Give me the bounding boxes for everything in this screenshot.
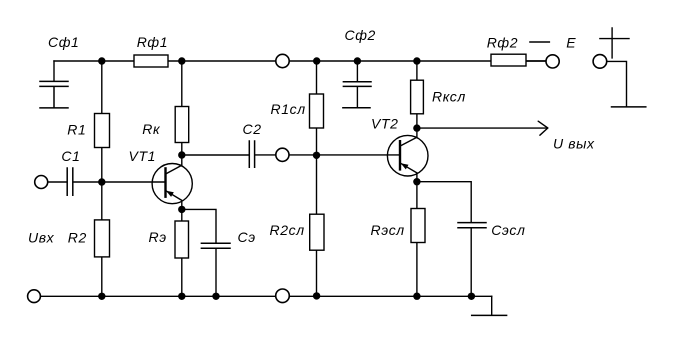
node top rail / R1 bbox=[98, 57, 105, 64]
resistor R2 bbox=[95, 220, 110, 257]
svg-text:Rф2: Rф2 bbox=[487, 34, 518, 50]
svg-text:Rксл: Rксл bbox=[432, 88, 466, 104]
minus sign bbox=[530, 41, 549, 43]
node bottom / R2 bbox=[98, 293, 105, 300]
wire bottom common rail bbox=[41, 295, 492, 297]
resistor R2сл bbox=[310, 214, 324, 250]
capacitor Сф2 bbox=[343, 82, 371, 87]
node top rail / Cf2 bbox=[354, 57, 361, 64]
svg-text:Сф1: Сф1 bbox=[48, 34, 79, 50]
resistor Rэсл bbox=[411, 209, 425, 243]
connector bottom rail bbox=[276, 289, 290, 303]
ground bar bottom right bbox=[472, 314, 507, 316]
capacitor Сэ bbox=[201, 243, 230, 248]
node top rail / Rksl bbox=[413, 57, 420, 64]
wire top supply rail bbox=[54, 60, 546, 62]
svg-text:R2сл: R2сл bbox=[270, 222, 305, 238]
ground bar under Сф2 bbox=[343, 107, 370, 109]
terminal input top bbox=[35, 176, 48, 189]
svg-text:C1: C1 bbox=[61, 148, 80, 164]
resistor Rф1 bbox=[134, 55, 168, 67]
node emitter VT2 bbox=[413, 178, 420, 185]
capacitor Сф1 bbox=[40, 81, 68, 107]
ground bar under Сф1 bbox=[40, 107, 68, 109]
svg-text:Сэ: Сэ bbox=[238, 229, 256, 245]
svg-text:Rэ: Rэ bbox=[149, 229, 167, 245]
wire VT2 emitter down bbox=[416, 173, 418, 296]
wire signal row stage1 to C2 bbox=[182, 154, 249, 156]
wire ground stub bottom right bbox=[491, 296, 493, 315]
wire R1sl column bbox=[316, 61, 318, 296]
wire connector to VT2 base bbox=[289, 154, 400, 156]
wire R1 column bbox=[101, 61, 103, 296]
capacitor C1 bbox=[67, 168, 73, 195]
wire input row to base bbox=[48, 181, 165, 183]
node bottom / Re bbox=[178, 293, 185, 300]
resistor R1 bbox=[95, 114, 110, 148]
svg-text:U вых: U вых bbox=[553, 135, 595, 151]
wire C2 to connector bbox=[255, 154, 275, 156]
svg-text:Сф2: Сф2 bbox=[345, 27, 376, 43]
arrowhead Uvyh bbox=[538, 121, 548, 135]
node base VT2 bbox=[313, 152, 320, 159]
svg-text:VT2: VT2 bbox=[371, 115, 398, 131]
node bottom / Ce bbox=[212, 293, 219, 300]
resistor R1сл bbox=[310, 94, 324, 128]
wire VT2 emitter to Cesl bbox=[417, 182, 471, 297]
svg-text:R2: R2 bbox=[68, 230, 87, 246]
terminal plus bbox=[593, 55, 607, 69]
svg-text:E: E bbox=[566, 34, 576, 50]
terminal minus E bbox=[546, 55, 559, 68]
connector top rail bbox=[276, 54, 289, 67]
wire plus terminal to ground bbox=[607, 61, 626, 106]
node bottom / Cesl bbox=[468, 293, 475, 300]
wire VT1 emitter to Ce bbox=[182, 209, 216, 296]
plus sign bbox=[600, 28, 629, 58]
wire output row bbox=[417, 127, 548, 129]
resistor Rэ bbox=[175, 221, 189, 258]
resistor Rф2 bbox=[491, 54, 526, 66]
wire Cf1 top lead bbox=[53, 61, 55, 81]
capacitor C2 bbox=[249, 141, 254, 167]
svg-text:Rэсл: Rэсл bbox=[371, 222, 405, 238]
connector signal row bbox=[276, 148, 289, 161]
transistor VT2 bbox=[387, 135, 428, 176]
node top rail / Rk bbox=[178, 57, 185, 64]
node base VT1 bbox=[98, 178, 105, 185]
svg-text:VT1: VT1 bbox=[129, 148, 156, 164]
node emitter VT1 bbox=[178, 206, 185, 213]
wire VT1 emitter down bbox=[181, 200, 183, 296]
node top rail / R1sl bbox=[313, 57, 320, 64]
svg-text:Uвх: Uвх bbox=[28, 229, 55, 245]
terminal input bottom bbox=[28, 290, 41, 303]
resistor Rксл bbox=[411, 80, 424, 114]
svg-text:Сэсл: Сэсл bbox=[491, 222, 525, 238]
wire Cf2 lead bbox=[356, 61, 358, 107]
node bottom / R2sl bbox=[313, 292, 320, 299]
node bottom / Resl bbox=[413, 293, 420, 300]
svg-text:R1: R1 bbox=[67, 121, 86, 137]
transistor VT1 bbox=[152, 164, 192, 204]
svg-text:C2: C2 bbox=[243, 121, 262, 137]
capacitor Сэсл bbox=[458, 223, 486, 228]
resistor Rк bbox=[175, 107, 189, 143]
ground bar right bbox=[612, 106, 646, 108]
wire Rk column bbox=[181, 61, 183, 165]
svg-text:R1сл: R1сл bbox=[271, 101, 306, 117]
svg-text:Rк: Rк bbox=[142, 121, 161, 137]
node collector VT2 bbox=[413, 124, 420, 131]
node collector VT1 bbox=[178, 151, 185, 158]
wire Rksl column bbox=[416, 61, 418, 137]
svg-text:Rф1: Rф1 bbox=[137, 34, 168, 50]
wire Rf2 to minus terminal bbox=[526, 60, 546, 62]
